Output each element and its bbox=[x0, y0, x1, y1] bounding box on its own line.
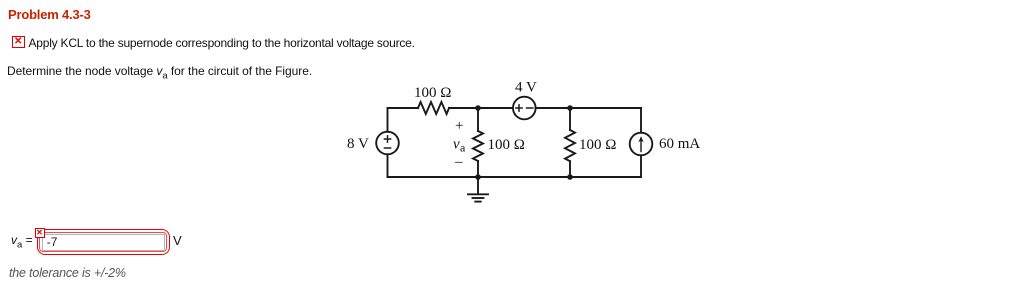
svg-text:+: + bbox=[455, 118, 463, 134]
svg-text:8 V: 8 V bbox=[347, 136, 369, 152]
svg-text:v: v bbox=[453, 137, 460, 153]
svg-text:60 mA: 60 mA bbox=[659, 136, 700, 152]
svg-text:100 Ω: 100 Ω bbox=[414, 85, 451, 101]
svg-text:a: a bbox=[460, 141, 466, 155]
svg-text:100 Ω: 100 Ω bbox=[579, 137, 616, 153]
svg-text:4 V: 4 V bbox=[515, 80, 537, 96]
svg-text:100 Ω: 100 Ω bbox=[488, 137, 525, 153]
svg-text:–: – bbox=[454, 154, 463, 170]
